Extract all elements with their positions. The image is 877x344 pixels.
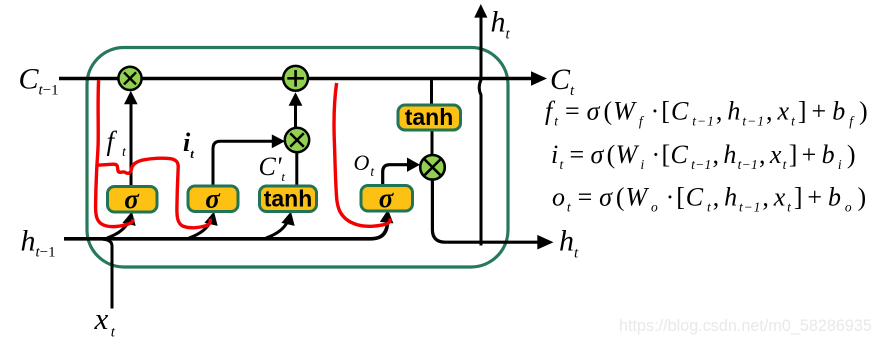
red annotation stroke left (from C line down to sigma 1 arrow) (96, 80, 133, 227)
svg-text:https://blog.csdn.net/m0_58286: https://blog.csdn.net/m0_58286935 (619, 317, 872, 335)
svg-text:ft=σ(Wf·[Ct−1,ht−1,xt]+bf): ft=σ(Wf·[Ct−1,ht−1,xt]+bf) (545, 97, 869, 129)
arrow from input line into sigma gate 2 (189, 210, 221, 238)
svg-text:ht: ht (491, 6, 511, 43)
wire C_{t-1} to C_t (top cell state line) (59, 71, 547, 86)
tanh gate box 1 (260, 186, 317, 212)
svg-text:Ct−1: Ct−1 (19, 63, 59, 99)
wire f gate up to multiply node (124, 91, 138, 187)
svg-text:ot=σ(Wo·[Ct,ht−1,xt]+bo): ot=σ(Wo·[Ct,ht−1,xt]+bo) (552, 183, 867, 215)
multiply node 3 (output) (420, 155, 445, 180)
wire h_t branch up (vertical to top) (474, 4, 487, 246)
svg-text:ht: ht (559, 225, 579, 262)
svg-text:σ: σ (379, 183, 395, 213)
add node (283, 66, 308, 91)
wire from C line down into tanh gate 2 (430, 80, 433, 105)
sigma gate box 1 (108, 184, 158, 214)
sigma gate box 4 (output gate) (361, 183, 413, 213)
wire i gate to multiply node 2 (213, 134, 285, 186)
svg-text:σ: σ (205, 184, 221, 214)
wire x_t input (103, 239, 112, 308)
wire from add node down to multiply node 2 (arrow into add node) (289, 92, 303, 128)
arrow from input line into tanh gate (266, 210, 298, 238)
tanh gate box 2 (cell state squash) (398, 104, 461, 130)
wire o gate to multiply node 3 (383, 158, 420, 187)
multiply node 2 (input x candidate) (285, 128, 309, 152)
svg-text:tanh: tanh (264, 186, 313, 212)
output wire from multiply node 3 to h_t (right) (432, 179, 553, 250)
svg-text:ht−1: ht−1 (21, 225, 56, 261)
sigma gate box 2 (188, 184, 238, 214)
wire tanh gate 2 down to multiply node 3 (431, 130, 434, 156)
wire h_{t-1} (bottom input line, ends curving up into last sigma gate) (64, 209, 395, 239)
red annotation stroke wiggle (to sigma 2 arrow) (98, 158, 211, 228)
svg-text:C't: C't (259, 152, 286, 184)
wire tanh gate 1 up to multiply node 2 (295, 153, 298, 187)
svg-text:Ot: Ot (354, 150, 376, 179)
multiply node 1 (forget) (118, 67, 141, 90)
svg-text:it: it (183, 128, 194, 161)
svg-text:σ: σ (124, 184, 140, 214)
red annotation stroke right (from C line down to sigma 4 arrow) (334, 83, 390, 226)
svg-text:Ct: Ct (550, 63, 575, 99)
svg-text:it=σ(Wi·[Ct−1,ht−1,xt]+bi): it=σ(Wi·[Ct−1,ht−1,xt]+bi) (551, 140, 856, 172)
LSTM cell boundary (87, 48, 508, 268)
svg-text:tanh: tanh (405, 104, 454, 130)
svg-text:ft: ft (107, 126, 128, 160)
arrow from input line into sigma gate 1 (107, 210, 139, 238)
